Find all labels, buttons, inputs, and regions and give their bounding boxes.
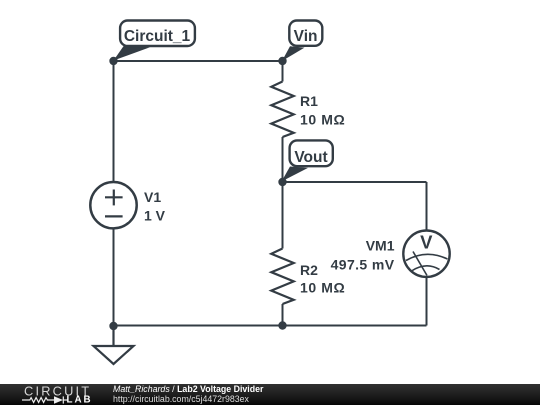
wire Vout horizontal xyxy=(283,181,427,183)
ground xyxy=(94,326,134,364)
wire meter bottom to ground rail xyxy=(426,278,428,326)
svg-text:R2: R2 xyxy=(300,262,318,278)
footer bar xyxy=(0,384,540,405)
voltmeter VM1 xyxy=(403,231,449,277)
node Vin junction xyxy=(278,57,286,65)
wire R2 to bottom rail xyxy=(282,304,284,326)
wire top horizontal net Vin xyxy=(114,60,283,62)
CircuitLab logo xyxy=(0,384,110,405)
net label Vout xyxy=(282,140,333,181)
svg-text:R1: R1 xyxy=(300,93,318,109)
wire Vout node to R2 xyxy=(282,182,284,249)
wire right rail to meter top xyxy=(426,182,428,230)
svg-text:V1: V1 xyxy=(144,189,161,205)
svg-text:1 V: 1 V xyxy=(144,208,166,224)
svg-text:V: V xyxy=(420,232,433,253)
svg-text:VM1: VM1 xyxy=(366,237,395,253)
wire left rail lower xyxy=(113,230,115,327)
svg-text:10 MΩ: 10 MΩ xyxy=(300,280,345,296)
wire R1 to Vout node xyxy=(282,137,284,182)
voltage source V1 xyxy=(90,182,136,228)
footer caption text xyxy=(112,383,114,385)
svg-text:Circuit_1: Circuit_1 xyxy=(124,28,191,45)
svg-text:10 MΩ: 10 MΩ xyxy=(300,112,345,128)
resistor R2 xyxy=(271,249,293,305)
node junction top-left xyxy=(109,57,117,65)
node junction bottom-left xyxy=(109,322,117,330)
svg-text:Vin: Vin xyxy=(294,28,318,45)
svg-text:497.5 mV: 497.5 mV xyxy=(331,257,395,273)
net label Vin xyxy=(282,21,322,62)
node junction bottom-middle xyxy=(278,321,286,329)
wire left rail upper xyxy=(113,61,115,182)
wire bottom ground rail xyxy=(114,325,427,327)
node Vout junction xyxy=(278,178,286,186)
svg-text:LAB: LAB xyxy=(67,395,93,405)
net label Circuit_1 xyxy=(114,21,195,61)
svg-text:Vout: Vout xyxy=(294,149,327,166)
wire Vin drop to R1 xyxy=(282,61,284,82)
resistor R1 xyxy=(271,82,293,138)
